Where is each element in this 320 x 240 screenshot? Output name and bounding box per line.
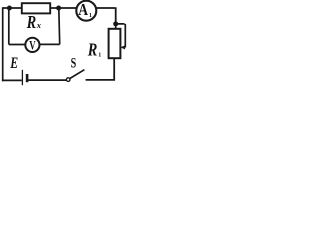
switch S blade [70,70,85,79]
wire top-right segment (ammeter to corner, down to R1 node) [96,7,116,23]
wire battery to switch [28,79,66,81]
wire voltmeter branch right [40,8,60,44]
resistor Rx (box on top wire) [22,3,50,13]
wire voltmeter branch left [9,8,26,45]
svg-text:R: R [26,12,36,32]
wire switch to R1 bottom corner [86,58,115,80]
wire left border [2,7,4,81]
svg-text:V: V [29,37,36,52]
background [0,0,128,86]
wire R1 slider (right, down, arrow into box) [116,24,126,48]
node dot left of Rx [7,6,12,11]
svg-text:E: E [9,55,18,72]
battery E long plate (+) [21,70,23,85]
resistor R1 (vertical box) [109,29,121,58]
svg-text:R: R [87,39,97,59]
node dot right of Rx [56,6,61,11]
wire top-left segment [3,7,22,9]
voltmeter V [25,38,39,52]
wire top-middle segment (Rx to ammeter) [50,7,76,9]
node dot at R1 top [113,21,118,26]
svg-text:A: A [78,0,88,19]
svg-text:1: 1 [98,53,101,59]
wire bottom-left (to battery) [2,79,22,81]
svg-text:x: x [36,20,42,30]
battery E short plate (-) [26,74,29,82]
ammeter A1 [76,1,96,21]
arrowhead of slider [120,45,125,49]
wire R1 node to box [115,24,117,29]
svg-text:1: 1 [89,13,92,19]
svg-text:S: S [71,56,77,72]
switch S pivot [66,78,70,82]
